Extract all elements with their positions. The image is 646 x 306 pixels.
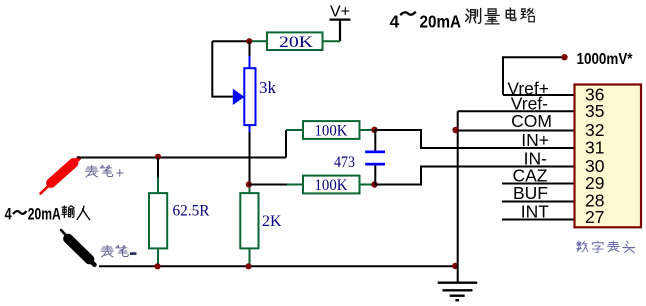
probe red 表笔+ xyxy=(41,158,79,193)
wire BUF stub xyxy=(502,201,575,203)
svg-text:2K: 2K xyxy=(262,213,282,230)
wire cap bottom to IN- xyxy=(375,167,575,185)
svg-text:4: 4 xyxy=(390,11,400,31)
resistor 100K bottom xyxy=(287,176,372,194)
svg-text:31: 31 xyxy=(585,138,604,158)
resistor 20K xyxy=(251,32,323,50)
resistor 2K xyxy=(240,185,282,267)
label 4~20mA输入 xyxy=(5,205,90,224)
wire top rail xyxy=(77,130,286,158)
wire bottom rail xyxy=(99,265,458,267)
svg-text:100K: 100K xyxy=(315,123,348,140)
svg-text:BUF: BUF xyxy=(513,183,548,203)
label 表笔- xyxy=(101,245,136,257)
node cap top (dot) xyxy=(371,127,377,133)
svg-text:20K: 20K xyxy=(279,34,314,51)
node COM junction (dot) xyxy=(452,127,458,133)
node rail/2K bottom (dot) xyxy=(245,263,251,269)
wire V+ to R 20K xyxy=(323,40,341,42)
resistor 62.5R xyxy=(149,158,210,267)
wire wiper loop xyxy=(212,41,233,96)
svg-text:4: 4 xyxy=(5,205,12,224)
wire cap top to IN+ xyxy=(375,130,575,148)
node junction top (dot) xyxy=(246,38,252,44)
svg-text:35: 35 xyxy=(585,101,604,121)
wire 100K bottom from node xyxy=(249,184,287,186)
V+ power terminal xyxy=(330,4,351,42)
title 4~20mA xyxy=(390,11,462,31)
svg-text:1000mV*: 1000mV* xyxy=(577,51,634,68)
wire pot bottom down xyxy=(249,132,251,185)
potentiometer 3k xyxy=(233,41,277,132)
node 1000mV end (dot) xyxy=(561,54,567,60)
label 表笔+ xyxy=(86,165,124,182)
ground xyxy=(438,283,478,301)
wire INT stub xyxy=(502,219,575,221)
label 数字表头 xyxy=(577,241,635,253)
node rail/62.5R bottom (dot) xyxy=(154,263,160,269)
node pot/2K/100K (dot) xyxy=(246,181,252,187)
title 测量电路 xyxy=(466,8,535,24)
svg-text:62.5R: 62.5R xyxy=(173,203,210,220)
svg-text:100K: 100K xyxy=(315,177,348,194)
wire Vref+ to 1000mV xyxy=(503,57,575,95)
svg-text:IN+: IN+ xyxy=(521,130,549,150)
svg-text:3k: 3k xyxy=(259,78,277,97)
wire COM/Vref- to ground xyxy=(457,111,459,282)
probe black 表笔- xyxy=(61,230,95,265)
wire CAZ stub xyxy=(502,183,575,185)
resistor 100K top xyxy=(286,121,372,139)
node rail/ground (dot) xyxy=(452,263,458,269)
wire 20K to junction xyxy=(212,40,251,42)
capacitor 473 xyxy=(334,130,385,185)
IC U1 digital meter head xyxy=(575,85,642,228)
node rail/62.5R (dot) xyxy=(155,154,161,160)
svg-text:COM: COM xyxy=(511,111,552,131)
svg-text:473: 473 xyxy=(334,154,355,171)
svg-text:20mA: 20mA xyxy=(420,11,462,31)
svg-text:INT: INT xyxy=(521,202,550,222)
svg-text:20mA: 20mA xyxy=(28,205,61,224)
svg-text:27: 27 xyxy=(585,207,604,227)
node cap bottom (dot) xyxy=(371,181,377,187)
svg-text:V+: V+ xyxy=(330,4,350,21)
svg-text:+: + xyxy=(116,166,124,182)
wire COM line xyxy=(458,130,575,132)
wire Vref- line xyxy=(458,110,575,112)
